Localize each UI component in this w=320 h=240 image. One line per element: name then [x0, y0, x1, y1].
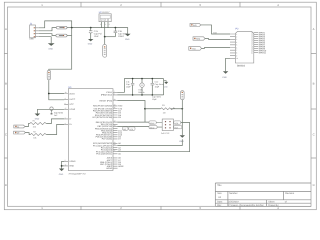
wire F2 right — [67, 35, 71, 37]
svg-text:10uF: 10uF — [94, 35, 100, 38]
svg-text:GND: GND — [179, 140, 184, 143]
svg-text:100nF: 100nF — [118, 35, 125, 38]
wire VBUS to J2 pin1 — [201, 25, 230, 34]
port D- — [14, 125, 25, 128]
mcu U1 left pin names — [69, 92, 76, 167]
connector J2 right pin numbers — [251, 31, 253, 54]
svg-text:10: 10 — [236, 57, 238, 60]
fuse F1 — [56, 26, 67, 29]
svg-text:Cap Pol: Cap Pol — [94, 33, 102, 36]
wire UCAP row — [37, 108, 64, 110]
ground U1 — [59, 169, 65, 177]
mcu U1 right pin names — [92, 91, 113, 170]
junction — [115, 27, 117, 29]
svg-text:RXD: RXD — [196, 37, 201, 40]
svg-text:UGND: UGND — [69, 160, 76, 163]
connector J1 — [29, 23, 39, 41]
wire J1 pin2 to fuse F1 — [39, 28, 57, 31]
svg-text:MOSI: MOSI — [150, 122, 155, 125]
svg-text:PD7 (AIN1): PD7 (AIN1) — [102, 138, 113, 141]
svg-text:C: C — [5, 133, 7, 137]
svg-text:A: A — [5, 27, 7, 31]
svg-text:C: C — [313, 133, 315, 137]
svg-text:10k: 10k — [33, 137, 36, 140]
wire J1 pin4 to ground — [39, 37, 51, 44]
svg-text:USB: USB — [29, 38, 34, 41]
regulator U2 LD1117 — [99, 11, 111, 37]
svg-text:UCAP: UCAP — [69, 108, 75, 111]
port TXD — [189, 47, 202, 51]
junction — [141, 78, 143, 80]
capacitor C15 (input) — [88, 28, 102, 46]
svg-text:UVCC: UVCC — [69, 98, 75, 101]
port RXD — [193, 37, 205, 41]
port VBUS — [190, 23, 201, 26]
wire XTAL2 bottom rail — [118, 79, 164, 95]
svg-text:1M: 1M — [163, 111, 166, 114]
capacitor C16 (output) — [114, 28, 128, 38]
svg-text:Size: Size — [217, 192, 222, 195]
svg-text:INT (PCINT21/OC0B): INT (PCINT21/OC0B) — [92, 116, 112, 119]
wire J2 pin10 to ground — [226, 58, 230, 71]
svg-text:3: 3 — [236, 38, 237, 41]
capacitor C12 — [151, 79, 164, 102]
wire F1 to rail junction — [67, 27, 72, 29]
svg-text:File:: File: — [217, 204, 222, 207]
resistor R1 10k — [30, 122, 46, 124]
wire D- to R1 — [25, 124, 30, 127]
power port RESET — [181, 91, 185, 100]
junction — [141, 94, 143, 96]
svg-text:Cap Semi: Cap Semi — [118, 33, 128, 36]
ground crystal rail — [164, 81, 169, 89]
wire R2 to U1 D+ — [46, 124, 64, 134]
junction — [132, 78, 134, 80]
wire rail to left port — [49, 28, 72, 71]
svg-text:GND: GND — [69, 165, 74, 168]
resistor R3 1M — [161, 108, 175, 110]
svg-text:XTAL1: XTAL1 — [106, 91, 113, 94]
mcu U1 right pin numbers — [114, 90, 116, 152]
svg-text:GND: GND — [35, 118, 40, 121]
capacitor C11 — [126, 79, 134, 95]
wire U1 to ISP SCK — [118, 125, 150, 127]
junction — [104, 36, 106, 38]
svg-text:GND: GND — [59, 173, 64, 176]
svg-text:RESET (PC6): RESET (PC6) — [99, 99, 112, 102]
svg-text:(PB6)XTAL2: (PB6)XTAL2 — [101, 94, 113, 97]
svg-text:B: B — [313, 82, 315, 86]
svg-text:1: 1 — [236, 33, 237, 36]
port D+ — [14, 131, 26, 134]
title block — [215, 183, 311, 206]
svg-text:GND: GND — [125, 38, 130, 41]
junction — [181, 108, 183, 110]
svg-text:ATmega328P-AU: ATmega328P-AU — [69, 172, 86, 175]
svg-text:C:\Users\..\Documents\Fix.SchD: C:\Users\..\Documents\Fix.SchDoc — [228, 204, 264, 207]
junction — [132, 94, 134, 96]
svg-text:D: D — [5, 183, 7, 187]
wire RESET port down to ISP/gnd — [181, 100, 183, 136]
wire power rail — [72, 28, 128, 34]
wire RESET to pull-up — [118, 101, 146, 123]
svg-text:21: 21 — [251, 51, 253, 54]
wire R1 to U1 D- — [46, 119, 64, 124]
svg-text:AREF: AREF — [118, 165, 124, 168]
mcu U1 right pin stubs — [113, 92, 118, 168]
power port +3V3 — [103, 37, 107, 58]
svg-text:10pF: 10pF — [126, 86, 131, 89]
net label boxes on ISP wire — [123, 127, 136, 130]
svg-text:B: B — [5, 82, 7, 86]
isp left net label boxes — [149, 121, 162, 129]
svg-text:Revision: Revision — [285, 192, 295, 195]
connector J2 right pin stubs — [254, 33, 258, 53]
svg-text:4: 4 — [236, 41, 237, 44]
ground ISP — [179, 135, 185, 143]
svg-text:of: of — [285, 200, 287, 203]
isp right net label boxes — [174, 121, 182, 129]
svg-text:GND: GND — [222, 76, 227, 79]
svg-text:6: 6 — [236, 46, 237, 49]
junction — [152, 94, 154, 96]
connector J2 left pin stubs — [230, 34, 235, 58]
ground J2 — [222, 71, 228, 79]
mcu U1 left pin stubs — [64, 94, 68, 166]
connector J2 right net labels — [259, 31, 267, 54]
mcu U1 ATmega328 — [68, 86, 113, 175]
svg-text:Date:: Date: — [217, 200, 223, 203]
junction — [71, 27, 73, 29]
svg-text:16MHz: 16MHz — [138, 91, 144, 94]
net labels right of U1 — [118, 105, 124, 168]
svg-text:9: 9 — [236, 54, 237, 57]
wire D+ to R2 — [25, 133, 30, 135]
svg-text:DM3CS: DM3CS — [237, 64, 246, 67]
svg-text:D-: D- — [69, 118, 72, 121]
svg-text:5: 5 — [236, 44, 237, 47]
fuse F2 — [56, 34, 67, 37]
svg-text:5V0: 5V0 — [193, 24, 196, 27]
svg-text:Number: Number — [229, 192, 238, 195]
ground UCAP — [35, 114, 41, 121]
svg-text:VCC: VCC — [69, 103, 74, 106]
wire J1 pin1 loop to rail — [39, 21, 72, 28]
wire TXD to J2 — [202, 47, 231, 50]
svg-text:10pF: 10pF — [155, 86, 160, 89]
wire pull-up row — [145, 108, 182, 110]
junction — [90, 27, 92, 29]
connector J2 left pin numbers — [236, 33, 238, 60]
connector J2 — [235, 28, 253, 68]
capacitor C17 on UCAP wire — [50, 107, 64, 117]
svg-text:GND: GND — [49, 47, 54, 50]
svg-text:8: 8 — [236, 52, 237, 55]
svg-text:LD1117: LD1117 — [102, 11, 110, 14]
power port VCC (left) — [47, 70, 50, 80]
junction — [144, 108, 146, 110]
wire PC1 to gnd stem — [118, 139, 183, 145]
svg-text:MISO: MISO — [150, 126, 155, 129]
wire U1 GND pins to ground — [62, 161, 65, 168]
wire regulator adj to cap — [105, 36, 116, 38]
crystal Y1 — [138, 79, 144, 95]
wire J1 pin3 to fuse F2 — [39, 34, 56, 36]
svg-text:AGND: AGND — [106, 167, 112, 170]
mcu U1 left pin numbers — [65, 91, 67, 166]
svg-text:RX0 (PCINT16/RXD): RX0 (PCINT16/RXD) — [93, 105, 113, 108]
ground J1 — [48, 43, 55, 50]
svg-text:GND: GND — [88, 43, 93, 46]
svg-text:10k: 10k — [33, 126, 36, 129]
svg-text:GND: GND — [164, 85, 169, 88]
junction — [152, 78, 154, 80]
junction — [48, 93, 50, 95]
svg-text:7: 7 — [236, 49, 237, 52]
svg-text:Sheet: Sheet — [268, 200, 274, 203]
svg-text:TXD: TXD — [192, 47, 196, 50]
svg-text:5V0: 5V0 — [213, 32, 216, 35]
svg-text:PC5 (ADC5/SCL): PC5 (ADC5/SCL) — [96, 153, 112, 156]
wire XTAL1 to top rail — [118, 79, 164, 93]
svg-text:Cap Semi: Cap Semi — [54, 111, 64, 114]
ground rail end — [125, 34, 131, 41]
svg-text:2/25/2019: 2/25/2019 — [228, 200, 239, 203]
svg-text:D: D — [313, 183, 315, 187]
svg-text:Drawn By:: Drawn By: — [268, 204, 279, 207]
svg-text:2: 2 — [236, 36, 237, 39]
wire port to AVCC/UVCC pins — [49, 80, 64, 100]
svg-text:GPIO11: GPIO11 — [259, 51, 267, 54]
wire ISP MISO loop to PC4 — [118, 123, 190, 152]
svg-text:A: A — [313, 27, 315, 31]
svg-text:10pF: 10pF — [152, 98, 157, 101]
wire U1 to ISP MOSI — [118, 121, 150, 123]
svg-text:AVCC: AVCC — [69, 92, 75, 95]
svg-text:Title: Title — [217, 184, 222, 187]
resistor R2 10k — [30, 133, 46, 135]
svg-text:2x3 ICSP: 2x3 ICSP — [161, 132, 170, 135]
junction — [61, 165, 63, 167]
wire RXD to J2 — [205, 38, 230, 41]
isp header J3 — [161, 119, 174, 135]
